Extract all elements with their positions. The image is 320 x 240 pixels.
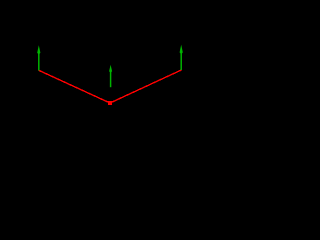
green arrow 3 (right) head (180, 45, 183, 55)
green arrow 2 (middle) head (109, 65, 112, 73)
green arrow 2 (middle) shaft (110, 70, 112, 87)
green arrow 3 (right) shaft (180, 50, 182, 71)
green arrow 1 (left) shaft (38, 50, 40, 71)
green arrow 1 (left) head (37, 45, 40, 55)
red line segment left (39,70)-(110,103) (39, 70, 110, 103)
red line segment right (110,103)-(181,70) (110, 70, 181, 103)
red square marker at vertex (108, 101, 112, 105)
